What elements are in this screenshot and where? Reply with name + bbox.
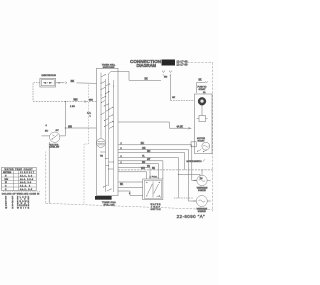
border frame left	[45, 152, 47, 204]
wire fan f3	[118, 151, 185, 170]
svg-text:SOLENOID: SOLENOID	[198, 211, 207, 213]
svg-text:MOTOR SWITCH: MOTOR SWITCH	[187, 161, 202, 163]
wire to motor top	[201, 169, 202, 175]
timer label below	[102, 201, 117, 207]
timer contact c18	[101, 101, 105, 104]
svg-text:4A-2, 3: 4A-2, 3	[20, 185, 30, 188]
svg-text:4A-2, 3-6: 4A-2, 3-6	[20, 181, 31, 184]
timer contact c6	[101, 96, 106, 99]
start dial D1	[198, 97, 206, 105]
svg-text:BK: BK	[120, 184, 124, 186]
wire fan f1 BU	[118, 143, 197, 180]
wire connector down to push-to-start	[164, 75, 195, 101]
svg-text:4A-2, 3-5: 4A-2, 3-5	[20, 188, 32, 191]
drawing number 22-6090 A	[177, 214, 206, 219]
cabinet boundary dashed	[84, 85, 89, 204]
timer contact c2	[100, 81, 105, 84]
timer contact c10	[109, 121, 114, 124]
wire fan f8	[118, 172, 147, 179]
wire fan f4	[118, 156, 193, 198]
svg-text:WH: WH	[74, 99, 78, 102]
wire to motor left	[178, 174, 200, 181]
cycle chart table	[2, 167, 37, 191]
svg-text:22-6090 “A”: 22-6090 “A”	[177, 214, 206, 219]
svg-text:WHITE: WHITE	[17, 207, 30, 209]
timer contact c14	[109, 162, 115, 163]
svg-text:START: START	[198, 140, 206, 143]
wire fan f5	[118, 159, 163, 179]
timer contact c20	[101, 113, 105, 116]
node 4 label	[46, 125, 48, 127]
timer contact c22	[104, 125, 109, 128]
svg-text:4: 4	[46, 125, 48, 127]
svg-text:TM: TM	[200, 178, 203, 180]
svg-text:BU: BU	[45, 130, 48, 132]
timer shaft block	[95, 196, 112, 200]
wire WH neutral (dashed)	[33, 83, 97, 103]
svg-text:DIAGRAM: DIAGRAM	[137, 63, 157, 68]
timer contact c19	[106, 109, 110, 112]
wire fan f2	[118, 148, 196, 201]
svg-text:(PULL ON): (PULL ON)	[104, 205, 115, 207]
wire timer to selector (4A BK)	[118, 122, 192, 129]
wire BN branch down	[64, 102, 66, 136]
timer contact c7	[104, 104, 109, 107]
title part-number block	[162, 60, 176, 66]
border frame top	[187, 61, 213, 63]
svg-text:SETTING: SETTING	[3, 172, 12, 174]
border frame right	[212, 62, 214, 211]
wire timer to selector top (BK)	[108, 71, 161, 80]
svg-text:BK: BK	[172, 97, 175, 99]
line cord plug P1	[40, 75, 56, 87]
svg-text:SOLENOID: SOLENOID	[198, 190, 207, 192]
timer internal bus 2	[105, 79, 107, 192]
wire fan f7	[118, 166, 151, 179]
node junction BN	[65, 127, 66, 128]
water temp switch label	[151, 203, 161, 211]
wire long bus WH/BK	[118, 168, 213, 170]
svg-text:SWITCH: SWITCH	[151, 209, 161, 211]
svg-text:4A BK: 4A BK	[177, 125, 184, 128]
svg-text:BK: BK	[199, 80, 203, 82]
wire water level switch down to border	[48, 142, 50, 204]
svg-text:CIRCUIT: CIRCUIT	[20, 172, 35, 174]
timer junction dots	[101, 86, 115, 123]
svg-text:TIMER DIAL: TIMER DIAL	[102, 201, 117, 204]
svg-text:WH: WH	[5, 207, 14, 209]
title revision text	[177, 60, 189, 66]
timer T1	[97, 64, 119, 195]
selector inner label	[197, 138, 206, 143]
wires timer to water-temp switch	[118, 182, 143, 196]
timer contact c3	[106, 83, 111, 86]
svg-text:START: START	[199, 88, 207, 91]
svg-text:GY: GY	[56, 130, 60, 132]
timer contact c21	[109, 115, 114, 118]
svg-text:1: 1	[90, 116, 92, 118]
wire fan f6	[118, 162, 159, 179]
timer contact c9	[104, 119, 109, 122]
selector edge tab	[191, 142, 196, 147]
svg-text:COLORS OF WIRE AND CODE IN: COLORS OF WIRE AND CODE IN	[2, 193, 40, 196]
wire dial to contact block	[201, 105, 203, 115]
wire water level switch left stub	[42, 135, 50, 137]
contact block inside selector	[197, 116, 208, 122]
node junction WH/BN	[65, 101, 66, 102]
timer contact c13	[105, 158, 109, 159]
svg-text:BK: BK	[71, 80, 75, 83]
title CONNECTION DIAGRAM	[130, 59, 162, 68]
connector pair under title	[162, 71, 172, 76]
timer contact c1	[101, 74, 106, 77]
timer internal bus 3	[108, 74, 110, 186]
timer contact c17	[101, 152, 106, 153]
timer contact c5	[105, 92, 110, 95]
timer internal bus 1	[100, 73, 102, 139]
svg-text:4A: 4A	[203, 91, 206, 94]
timer contact c23	[109, 126, 114, 129]
selector label below	[187, 159, 206, 163]
selector bottom contacts	[197, 150, 207, 153]
border frame bottom	[46, 203, 213, 209]
wire BK line-cord to timer	[56, 80, 97, 84]
water valve solenoid V2 (cold)	[193, 196, 211, 214]
svg-text:WATER TEMP CHART: WATER TEMP CHART	[5, 168, 34, 171]
svg-text:22-17-09: 22-17-09	[177, 63, 189, 66]
timer contact c4	[100, 87, 105, 90]
selector relay coil	[202, 142, 210, 150]
timer contact c8	[109, 107, 114, 110]
svg-text:TM: TM	[100, 155, 103, 157]
svg-text:WH: WH	[89, 100, 93, 102]
svg-text:W: W	[5, 182, 7, 184]
timer motor M1	[96, 139, 105, 158]
water temp switch S2	[143, 177, 163, 200]
timer internal bus 4	[113, 80, 115, 192]
svg-text:4A-1, 2-6: 4A-1, 2-6	[20, 175, 32, 178]
svg-text:WW: WW	[5, 179, 9, 181]
timer contact c15	[106, 165, 110, 166]
svg-text:LINE CORD PLUG: LINE CORD PLUG	[42, 75, 57, 77]
wire BN to timer	[65, 106, 96, 129]
timer contact c11	[103, 185, 108, 188]
timer contact c16	[108, 169, 114, 170]
svg-text:A.C.: A.C.	[87, 112, 91, 115]
svg-text:BK: BK	[145, 78, 149, 81]
cabinet label	[87, 112, 92, 118]
wiring color legend	[2, 191, 40, 209]
svg-text:4A-1, 2-3-6: 4A-1, 2-3-6	[20, 178, 33, 181]
wire water level switch to BN node	[60, 135, 65, 137]
water valve solenoid V1 (hot)	[194, 175, 211, 192]
water level switch S1	[45, 130, 60, 149]
svg-text:1 BU: 1 BU	[70, 106, 75, 108]
svg-text:LEVEL SW: LEVEL SW	[49, 147, 59, 149]
timer contact c12	[107, 188, 112, 191]
push-to-start / motor switch box U1	[195, 80, 213, 154]
svg-text:4 POS.: 4 POS.	[150, 177, 158, 179]
svg-text:WH: WH	[164, 77, 168, 79]
